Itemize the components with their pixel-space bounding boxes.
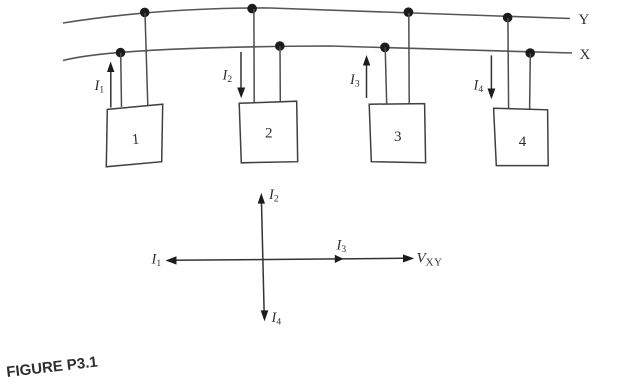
svg-text:Y: Y bbox=[579, 12, 590, 28]
current arrow I2 (down) bbox=[237, 52, 245, 98]
load box 3 bbox=[369, 104, 425, 163]
svg-text:4: 4 bbox=[519, 134, 527, 150]
svg-text:I4: I4 bbox=[473, 78, 484, 96]
wire: load 2 to Y bus bbox=[253, 9, 255, 103]
node: Y-bus junction of load 4 bbox=[503, 13, 513, 23]
svg-text:X: X bbox=[580, 47, 591, 63]
bus X bbox=[63, 46, 572, 61]
phasor axis vertical (I2 up / I4 down) bbox=[258, 193, 269, 322]
wire: load 1 to Y bus bbox=[145, 13, 148, 106]
wire: load 4 to Y bus bbox=[507, 18, 510, 109]
wire: load 1 to X bus bbox=[120, 53, 123, 107]
phasor axis horizontal (I1 left / I3, Vxy right) bbox=[166, 254, 415, 264]
node: X-bus junction of load 4 bbox=[525, 48, 535, 58]
svg-text:2: 2 bbox=[265, 126, 273, 142]
node: Y-bus junction of load 3 bbox=[404, 7, 414, 17]
load box 4 bbox=[494, 108, 549, 165]
svg-text:VXY: VXY bbox=[417, 251, 443, 269]
svg-text:I3: I3 bbox=[336, 238, 347, 256]
bus Y bbox=[63, 8, 570, 23]
svg-text:1: 1 bbox=[131, 132, 140, 149]
wire: load 3 to Y bus bbox=[408, 13, 410, 104]
svg-text:I2: I2 bbox=[222, 68, 233, 86]
node: Y-bus junction of load 1 bbox=[140, 8, 150, 18]
svg-text:I1: I1 bbox=[94, 78, 105, 96]
wire: load 2 to X bus bbox=[279, 47, 281, 102]
load box 1 bbox=[106, 104, 162, 167]
current arrow I3 (up) bbox=[363, 55, 370, 98]
current arrow I1 (up) bbox=[107, 62, 114, 108]
load box 2 bbox=[239, 101, 298, 163]
wire: load 4 to X bus bbox=[529, 54, 532, 110]
node: X-bus junction of load 2 bbox=[275, 41, 285, 51]
node: X-bus junction of load 3 bbox=[380, 43, 390, 53]
current arrow I4 (down) bbox=[488, 55, 496, 99]
svg-text:I1: I1 bbox=[151, 252, 162, 270]
svg-text:I4: I4 bbox=[271, 310, 282, 328]
svg-text:I3: I3 bbox=[349, 72, 360, 90]
svg-text:I2: I2 bbox=[268, 187, 279, 205]
node: X-bus junction of load 1 bbox=[116, 48, 126, 58]
node: Y-bus junction of load 2 bbox=[247, 4, 257, 14]
svg-text:FIGURE P3.1: FIGURE P3.1 bbox=[6, 354, 99, 381]
svg-text:3: 3 bbox=[394, 129, 402, 145]
wire: load 3 to X bus bbox=[385, 48, 387, 105]
